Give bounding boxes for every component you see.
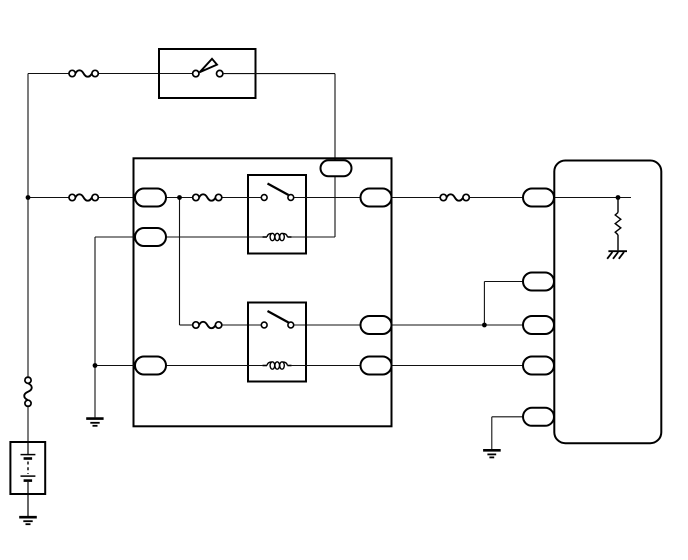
connector oval box right pin 2	[361, 316, 392, 334]
wire branch to relay R2	[180, 198, 362, 326]
battery BAT	[10, 442, 45, 516]
wire main rail left segment	[28, 197, 135, 199]
wire main rail inside box	[166, 197, 361, 199]
relay R2 coil	[263, 362, 292, 369]
fuse F5 (right of box)	[440, 194, 469, 200]
fuse F2 (main rail)	[69, 194, 98, 200]
node resistor junction	[616, 195, 621, 200]
wire battery vertical	[27, 74, 29, 443]
relay R1 contacts	[261, 184, 293, 201]
ground battery	[19, 517, 37, 524]
wire relay R1 coil rail	[95, 236, 335, 238]
wire relay R2 output to unit	[392, 324, 523, 326]
fuse F3 (inside box, relay R1)	[193, 194, 222, 200]
connector oval unit pin 4	[523, 357, 554, 375]
wire switch to relay coil oval	[223, 74, 335, 237]
connector oval box right pin 1	[361, 189, 392, 207]
connector oval box left pin 2	[135, 228, 166, 246]
chassis ground (under resistor)	[607, 251, 627, 259]
ground unit pin5	[483, 450, 501, 457]
fuse F4 (inside box, relay R2)	[193, 322, 222, 328]
connector oval box left pin 3	[135, 357, 166, 375]
connector oval unit pin 2	[523, 273, 554, 291]
connector oval unit pin 5	[523, 408, 554, 426]
relay R2 contacts	[261, 311, 293, 328]
node unit pin2/3 junction	[482, 323, 487, 328]
wire coil ground leg	[94, 237, 96, 417]
connector oval unit pin 1	[523, 189, 554, 207]
unit control module body	[554, 161, 661, 444]
wire main rail to unit	[392, 197, 523, 199]
switch contacts and blade	[193, 59, 223, 77]
node battery rail junction	[26, 195, 31, 200]
relay R2 box	[248, 303, 306, 382]
ground relay coils	[86, 419, 103, 426]
connector oval unit pin 3	[523, 316, 554, 334]
connector oval box left pin 1	[135, 189, 166, 207]
wire unit pin2 branch	[484, 282, 522, 326]
node relay feed junction	[177, 195, 182, 200]
wire unit internal stub	[554, 197, 631, 199]
connector oval box right pin 3	[361, 357, 392, 375]
resistor R (inside unit)	[615, 198, 621, 251]
connector oval box top	[321, 160, 352, 176]
relay R1 box	[248, 175, 306, 254]
wire relay R2 coil rail	[95, 365, 523, 367]
relay R1 coil	[263, 233, 292, 240]
fusible link FL	[24, 377, 32, 406]
switch box SW1	[159, 49, 256, 98]
fuse F1 (top line)	[69, 70, 98, 76]
big box junction block	[134, 158, 392, 426]
wire unit pin5 ground leg	[492, 417, 523, 449]
node coil ground junction	[93, 363, 98, 368]
wire battery feed top horizontal	[28, 73, 192, 75]
